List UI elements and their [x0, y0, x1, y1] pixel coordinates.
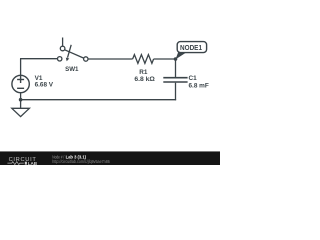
wire: bottom rail: [21, 99, 177, 101]
wire: SW1 to R1: [88, 58, 133, 60]
wire: V1 bottom to ground junction: [20, 93, 22, 100]
wire: junction down to C1: [175, 59, 177, 77]
svg-text:R1: R1: [139, 69, 148, 76]
svg-text:NODE1: NODE1: [180, 45, 202, 52]
svg-text:6.8 mF: 6.8 mF: [189, 83, 209, 90]
footer bar: [0, 152, 220, 166]
ground: [12, 100, 30, 117]
junction dot at NODE1: [174, 57, 178, 61]
wire: C1 down to bottom rail: [175, 83, 177, 101]
voltage source V1: [12, 75, 29, 92]
svg-text:LAB: LAB: [28, 161, 38, 165]
wire: R1 to NODE1 junction: [154, 58, 176, 60]
svg-text:C1: C1: [189, 75, 198, 82]
wire: V1 top vertical segment: [20, 59, 22, 76]
svg-text:6.68 V: 6.68 V: [35, 81, 54, 88]
switch SW1: [58, 38, 89, 62]
capacitor C1: [163, 78, 187, 82]
svg-text:http://circuitlab.com/c/jfq9v5: http://circuitlab.com/c/jfq9v5ae7n86: [52, 159, 110, 164]
node flag NODE1: [176, 42, 207, 60]
svg-text:6.8 kΩ: 6.8 kΩ: [134, 76, 155, 83]
junction dot at ground node: [19, 98, 23, 102]
CircuitLab logo: [7, 157, 37, 166]
wire: top-left horizontal to SW1: [20, 58, 58, 60]
resistor R1: [133, 55, 154, 64]
svg-text:SW1: SW1: [65, 66, 79, 73]
